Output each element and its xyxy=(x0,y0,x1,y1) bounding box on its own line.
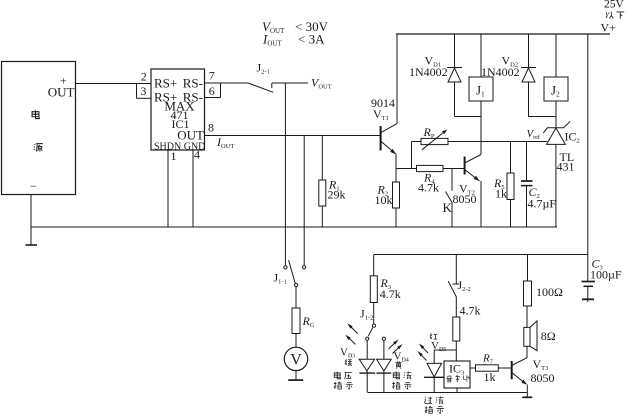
power supply box (dianyuan) xyxy=(2,62,76,195)
wire RP to Vref node xyxy=(448,141,547,143)
ground (VT3) xyxy=(522,396,532,398)
wire lower V+ rail xyxy=(374,254,588,256)
svg-text:4.7k: 4.7k xyxy=(460,304,481,318)
capacitor C3 100uF xyxy=(587,255,589,281)
svg-text:10k: 10k xyxy=(375,193,393,207)
svg-text:100µF: 100µF xyxy=(590,268,622,282)
wire VD5 branch tap xyxy=(434,349,456,351)
svg-text:4.7µF: 4.7µF xyxy=(528,196,557,210)
resistor 100ohm xyxy=(527,255,529,282)
resistor R5 1k xyxy=(510,142,512,174)
relay J1 xyxy=(480,34,482,77)
wire 4.7k to IC3 xyxy=(455,341,457,361)
wire voltmeter to ground xyxy=(295,371,297,380)
resistor R3 4.7k xyxy=(373,255,375,276)
resistor 4.7k (J2-2 branch) xyxy=(455,297,457,317)
op-amp U IC1 MAX471 box xyxy=(151,69,205,150)
switch J2-2 xyxy=(455,255,457,284)
svg-text:8: 8 xyxy=(208,120,214,134)
wire indicator ground rail xyxy=(368,392,528,394)
speaker 8ohm xyxy=(524,327,530,346)
svg-text:1k: 1k xyxy=(484,370,496,384)
transistor Q VT1 9014 xyxy=(380,126,382,151)
diode VD1 1N4002 xyxy=(454,34,456,68)
LED VD5 red xyxy=(433,350,435,363)
switch J1-1 xyxy=(284,266,287,269)
wire Vout down to J1-1 left contact xyxy=(284,83,286,265)
svg-text:100Ω: 100Ω xyxy=(536,285,563,299)
wire VT1 emitter node xyxy=(396,168,417,170)
resistor R2 10k xyxy=(393,182,400,208)
wire VD2 anode to J2 coil xyxy=(529,116,557,118)
wire Iout down to J1-1 right contact xyxy=(303,136,305,266)
wire PSU+ to IC1 pin2 xyxy=(76,83,152,85)
wire RG to voltmeter xyxy=(295,334,297,348)
svg-text:1: 1 xyxy=(171,149,177,163)
wire R4 to VT2 base xyxy=(443,168,465,170)
wire pin6/pin7 bracket xyxy=(220,83,222,98)
wire VT3 emitter to ground xyxy=(526,385,528,397)
resistor R1 29k xyxy=(321,136,323,181)
wire speaker to VT3 collector xyxy=(526,346,528,357)
label overcurrent indicator xyxy=(424,397,432,404)
svg-text:6: 6 xyxy=(209,84,215,98)
wire pin4 to ground xyxy=(192,150,194,227)
net V+ rail xyxy=(396,33,610,35)
svg-text:3: 3 xyxy=(140,84,146,98)
wire PSU minus to ground xyxy=(30,195,32,245)
svg-text:1k: 1k xyxy=(495,187,507,201)
svg-text:1N4002: 1N4002 xyxy=(481,65,520,79)
potentiometer RP xyxy=(412,141,422,143)
transistor Q VT2 8050 xyxy=(464,157,466,175)
resistor R4 4.7k xyxy=(417,165,444,171)
shunt regulator IC2 TL431 xyxy=(547,127,564,129)
wire J1-1 pole to RG xyxy=(295,287,297,308)
svg-text:4.7k: 4.7k xyxy=(380,287,401,301)
svg-text:1N4002: 1N4002 xyxy=(409,65,448,79)
svg-text:8050: 8050 xyxy=(453,192,477,206)
LED VD3 green xyxy=(366,340,368,359)
switch J2-1 xyxy=(248,83,273,92)
svg-text:8Ω: 8Ω xyxy=(541,329,556,343)
svg-text:4: 4 xyxy=(194,148,200,162)
svg-text:OUT: OUT xyxy=(48,85,75,100)
relay J2 xyxy=(555,34,557,77)
wire pin1 to ground xyxy=(167,150,169,227)
svg-text:< 3A: < 3A xyxy=(298,31,325,46)
svg-text:K: K xyxy=(443,200,453,215)
resistor R7 1k xyxy=(470,367,476,369)
voltmeter V xyxy=(284,347,307,370)
svg-text:8050: 8050 xyxy=(531,371,555,385)
svg-text:431: 431 xyxy=(557,160,575,174)
diode VD2 1N4002 xyxy=(528,34,530,68)
svg-text:25V: 25V xyxy=(604,0,625,11)
wire 100ohm to speaker xyxy=(526,306,528,327)
svg-text:−: − xyxy=(30,179,37,193)
wire ground rail xyxy=(31,226,557,228)
switch J1-2 xyxy=(372,324,375,327)
svg-text:V+: V+ xyxy=(601,21,617,35)
svg-text:4.7k: 4.7k xyxy=(418,180,439,194)
svg-text:RS+: RS+ xyxy=(154,76,177,91)
svg-text:V: V xyxy=(290,352,302,369)
ground (voltmeter) xyxy=(288,379,303,381)
wire pin2/pin3 bracket xyxy=(136,84,138,99)
svg-text:29k: 29k xyxy=(328,188,346,202)
wire V+ right drop xyxy=(587,34,589,255)
wire pin7 out xyxy=(205,82,249,84)
capacitor C2 4.7uF xyxy=(526,142,528,181)
ground (PSU) xyxy=(26,244,38,246)
wire VD1 anode to J1 coil xyxy=(455,116,482,118)
ground (C3) xyxy=(582,298,594,300)
wire J2-1 to Vout label xyxy=(272,82,308,84)
music chip IC3 xyxy=(444,361,470,388)
svg-text:7: 7 xyxy=(209,69,215,83)
wire pin8 Iout to VT1 base xyxy=(205,135,381,137)
transistor Q VT3 8050 xyxy=(511,361,513,379)
LED VD4 yellow xyxy=(383,340,385,359)
svg-text:RS-: RS- xyxy=(183,76,203,91)
svg-text:OUT: OUT xyxy=(177,127,204,142)
switch K xyxy=(451,169,453,191)
svg-text:2: 2 xyxy=(141,70,147,84)
resistor RG xyxy=(292,308,300,334)
